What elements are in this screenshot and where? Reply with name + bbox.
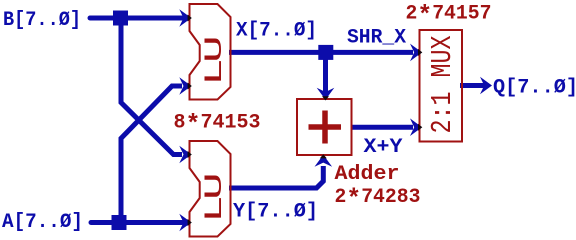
svg-text:2*74157: 2*74157 (406, 1, 492, 30)
arrow tip overlap at MUX top input (418, 49, 422, 56)
svg-text:U: U (201, 172, 229, 200)
wire A label to A junction to LU2 bottom input (91, 220, 182, 225)
LU block U1 (top, 8*74153) outline (190, 4, 231, 100)
svg-text:X[7..Ø]: X[7..Ø] (236, 20, 317, 43)
junction X / SHR_X (318, 45, 333, 60)
adder plus symbol (309, 124, 342, 130)
LU block U2 (bottom, 8*74153) outline (190, 141, 231, 237)
wire A junction up then diagonal to LU1 bottom input (121, 86, 182, 224)
wire B junction down then diagonal to LU2 top input (121, 16, 182, 155)
wire adder output to MUX lower input (351, 125, 413, 130)
arrow into LU1 bottom input (179, 77, 191, 95)
svg-text:A[7..Ø]: A[7..Ø] (2, 211, 83, 234)
svg-text:2:1 MUX: 2:1 MUX (426, 36, 459, 134)
svg-text:B[7..Ø]: B[7..Ø] (3, 9, 81, 32)
arrow into MUX top input (410, 44, 422, 62)
svg-text:8*74153: 8*74153 (174, 110, 261, 139)
wire X junction down to adder top input (323, 52, 328, 94)
arrow tip overlap at LU2 bottom input (188, 219, 192, 226)
svg-text:U: U (201, 35, 229, 63)
arrow tip overlap at LU1 bottom input (188, 83, 192, 90)
adder U3 (2*74283) box (297, 99, 352, 155)
arrow MUX output to Q (480, 77, 492, 95)
arrow into MUX bottom input (410, 118, 422, 136)
svg-text:X+Y: X+Y (364, 136, 403, 159)
arrow into LU2 bottom input (179, 214, 191, 232)
wire MUX output to Q arrowhead (460, 83, 486, 88)
mux U4 (2*74157) box (420, 30, 463, 142)
junction B (113, 11, 128, 26)
arrow tip overlap at adder top (322, 96, 329, 100)
svg-text:Y[7..Ø]: Y[7..Ø] (233, 201, 318, 224)
arrow tip overlap at MUX bottom input (418, 124, 422, 131)
svg-text:2*74283: 2*74283 (335, 185, 421, 214)
arrow up into adder bottom (315, 155, 333, 167)
svg-text:Q[7..Ø]: Q[7..Ø] (493, 77, 576, 100)
arrow tip overlap at LU2 top input (188, 151, 192, 158)
svg-text:Adder: Adder (335, 163, 400, 186)
block text LU (top LU) (201, 35, 229, 86)
arrow tip overlap at adder bottom (320, 154, 327, 158)
arrow tip overlap at LU1 top input (188, 15, 192, 22)
wire B label to B junction to LU1 top input (90, 16, 182, 21)
arrow down into adder top (317, 88, 335, 100)
junction A (112, 215, 127, 230)
wire X: LU1 output to X junction to MUX input (229, 50, 413, 55)
wire Y: LU2 output, bend up to adder bottom input (229, 166, 323, 188)
block text LU (bottom LU) (201, 172, 229, 223)
arrow into LU2 top input (179, 146, 191, 164)
svg-text:SHR_X: SHR_X (347, 27, 406, 50)
arrow into LU1 top input (179, 9, 191, 27)
